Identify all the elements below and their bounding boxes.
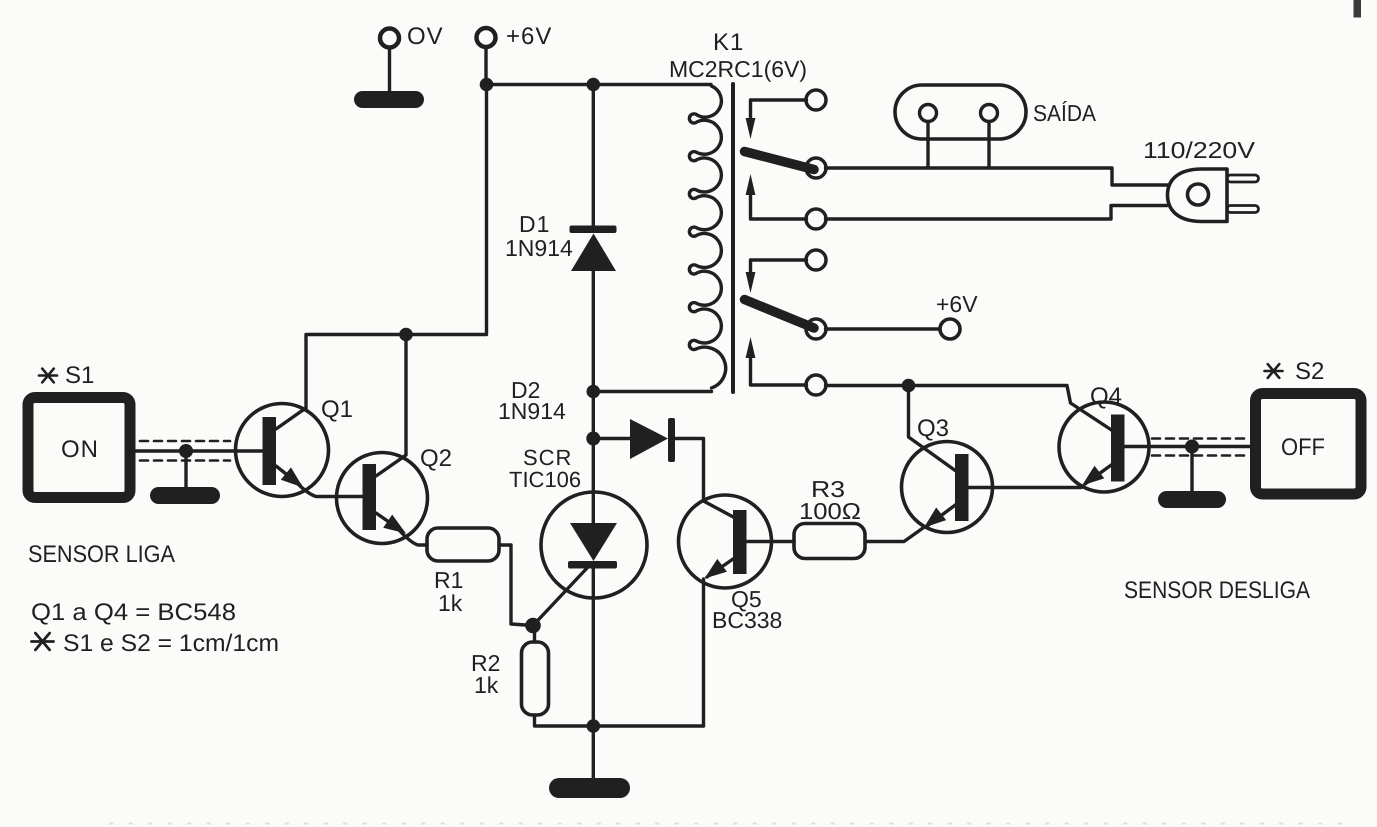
diode D2 xyxy=(630,418,675,462)
plug hole xyxy=(1188,184,1209,205)
wire S1 to Q1 base xyxy=(135,449,262,452)
arrow down (set 2) xyxy=(746,272,756,293)
sensor S1 box xyxy=(28,398,130,498)
plug prong top xyxy=(1227,175,1259,182)
relay K1 coil xyxy=(689,86,725,388)
socket hole right xyxy=(981,105,998,122)
svg-text:110/220V: 110/220V xyxy=(1143,137,1256,163)
wire gate node to R2 xyxy=(533,626,536,643)
SCR TIC106 xyxy=(541,492,647,598)
node S1 ground junction xyxy=(179,444,193,458)
terminal +6V (right) xyxy=(940,319,960,339)
svg-text:K1: K1 xyxy=(713,29,744,56)
svg-text:100Ω: 100Ω xyxy=(799,498,861,524)
transistor Q2 xyxy=(337,453,428,544)
label *S1 xyxy=(39,369,57,383)
scan artifact top right xyxy=(1354,0,1362,18)
transistor Q5 xyxy=(679,495,772,588)
relay contact set 1: fixed contact top xyxy=(806,90,826,110)
wire R2 bottom xyxy=(535,715,704,726)
wire socket left lead xyxy=(926,122,929,167)
svg-text:SENSOR DESLIGA: SENSOR DESLIGA xyxy=(1124,577,1310,604)
svg-text:1k: 1k xyxy=(474,672,499,698)
label S1 e S2 = 1cm/1cm xyxy=(32,633,54,650)
svg-text:Q4: Q4 xyxy=(1090,383,1122,410)
relay moving contact (set 2) xyxy=(745,300,815,329)
svg-text:S1: S1 xyxy=(65,362,94,389)
svg-text:BC338: BC338 xyxy=(712,607,782,633)
wire Q2 emitter to R1 xyxy=(399,530,427,545)
wire contact2 to Q3/Q4 xyxy=(826,386,1114,432)
svg-text:D1: D1 xyxy=(519,211,550,237)
dashed sensor wire top (S1) xyxy=(140,440,230,443)
wire Q5 base to R3 xyxy=(747,540,795,543)
svg-text:Q3: Q3 xyxy=(917,415,949,442)
svg-text:ON: ON xyxy=(61,436,99,463)
wire D1 bottom segment xyxy=(592,271,595,392)
SCR cathode bar xyxy=(568,561,617,569)
fixed contact bottom (set 1) xyxy=(806,209,826,229)
svg-text:MC2RC1(6V): MC2RC1(6V) xyxy=(669,56,807,82)
node Q3 branch junction xyxy=(902,379,916,393)
diode D1 xyxy=(570,226,617,272)
resistor R2 xyxy=(522,642,549,715)
arrow down (set 1) xyxy=(746,118,756,139)
plug prong bottom xyxy=(1227,206,1259,213)
node +6V junction xyxy=(480,78,494,92)
socket hole left xyxy=(920,105,937,122)
dashed sensor wire top (S2) xyxy=(1152,437,1250,440)
wire S2 junction to ground xyxy=(1190,447,1193,493)
dashed sensor wire bottom (S2) xyxy=(1152,454,1250,457)
node ground junction xyxy=(587,719,601,733)
wire Q3 collector drop xyxy=(909,386,959,473)
plug body xyxy=(1168,169,1228,222)
svg-text:SAÍDA: SAÍDA xyxy=(1033,100,1097,126)
SCR cathode wire xyxy=(592,568,595,726)
wire contact1 top lead xyxy=(751,100,807,118)
wire pole2 to +6V terminal xyxy=(826,327,940,330)
node D1 top junction xyxy=(587,78,601,92)
terminal +6V xyxy=(477,28,496,47)
resistor R1 xyxy=(427,528,499,561)
svg-text:OFF: OFF xyxy=(1281,434,1325,461)
relay core line xyxy=(731,84,735,392)
resistor R3 xyxy=(794,524,865,559)
svg-text:+6V: +6V xyxy=(936,291,978,317)
wire Q1 collector up xyxy=(303,335,406,411)
node Q2 collector junction xyxy=(399,328,413,342)
SCR triangle xyxy=(570,523,617,561)
wire Q5 emitter down xyxy=(702,579,705,726)
wire D2 cathode to Q5 collector xyxy=(675,439,737,520)
wire D1-D2 link xyxy=(592,392,595,493)
SCR gate wire xyxy=(533,567,588,626)
SCR anode wire inside xyxy=(592,492,595,523)
wire +6V down-left branch xyxy=(406,85,487,335)
svg-text:TIC106: TIC106 xyxy=(509,467,581,492)
svg-text:Q2: Q2 xyxy=(420,445,452,472)
wire Q4 base to S2 xyxy=(1125,445,1253,448)
svg-text:+6V: +6V xyxy=(506,23,552,50)
wire D2 anode xyxy=(593,437,630,440)
wire S1 junction to ground xyxy=(184,451,187,489)
label *S2 xyxy=(1265,364,1283,378)
fixed contact bottom (set 2) xyxy=(806,375,826,395)
socket SAIDA outline xyxy=(895,85,1026,139)
pole circle (set 2) xyxy=(806,319,826,339)
wire Q1 emitter to Q2 base xyxy=(297,483,362,497)
wire Q2 collector up xyxy=(404,335,406,457)
wire coil bottom xyxy=(593,390,711,393)
sensor S2 box xyxy=(1256,394,1362,495)
wire 0V to ground xyxy=(388,49,391,94)
svg-text:S2: S2 xyxy=(1295,358,1324,385)
wire R3 to Q3 emitter xyxy=(865,528,923,542)
wire D1 top segment xyxy=(592,85,595,227)
arrow up (set 2) xyxy=(746,337,756,358)
transistor Q1 xyxy=(236,404,329,497)
svg-text:SENSOR LIGA: SENSOR LIGA xyxy=(28,541,175,568)
svg-text:1N914: 1N914 xyxy=(505,235,573,261)
wire line cord bottom conductor xyxy=(826,206,1168,220)
transistor Q4 xyxy=(1059,402,1149,492)
wire to main ground xyxy=(592,726,595,780)
svg-text:S1 e S2 = 1cm/1cm: S1 e S2 = 1cm/1cm xyxy=(63,630,279,657)
svg-text:Q1 a Q4 = BC548: Q1 a Q4 = BC548 xyxy=(31,599,236,626)
node S2 ground junction xyxy=(1185,440,1199,454)
ground (S2) xyxy=(1158,491,1226,508)
transistor Q3 xyxy=(902,442,993,533)
wire contact2 top lead xyxy=(751,260,807,272)
ground (0V) xyxy=(354,91,424,108)
wire arrow to lower contact (set 1) xyxy=(751,195,807,219)
pole circle (set 1) xyxy=(806,158,826,178)
terminal 0V xyxy=(380,29,399,48)
node gate junction xyxy=(525,618,541,634)
arrow up (set 1) xyxy=(746,174,756,195)
wire socket right lead xyxy=(987,122,990,167)
wire +6V rail to coil xyxy=(487,83,712,86)
wire R1 to gate node xyxy=(499,545,533,626)
svg-text:OV: OV xyxy=(407,23,444,50)
node D2 junction xyxy=(586,432,600,446)
wire +6V down xyxy=(484,48,487,85)
wire Q3 base to Q4 emitter xyxy=(969,486,1082,489)
svg-text:1N914: 1N914 xyxy=(498,398,566,424)
svg-text:1k: 1k xyxy=(438,590,463,616)
dashed sensor wire bottom (S1) xyxy=(140,459,230,462)
scan artifact bottom speckles xyxy=(110,823,1345,825)
node coil bottom junction xyxy=(587,385,601,399)
ground (S1) xyxy=(150,487,220,504)
relay contact set 2: fixed contact top xyxy=(806,250,826,270)
ground (main) xyxy=(549,778,630,798)
wire arrow to lower contact (set 2) xyxy=(751,358,807,385)
svg-text:Q1: Q1 xyxy=(321,396,353,423)
wire line cord top conductor xyxy=(826,168,1168,185)
relay moving contact (set 1) xyxy=(745,152,815,170)
